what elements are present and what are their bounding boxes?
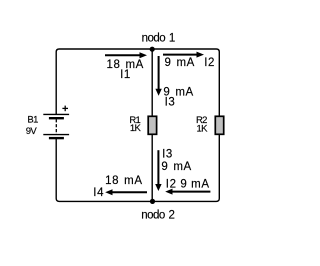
svg-text:9V: 9V [26,126,38,137]
svg-text:9 mA: 9 mA [164,57,194,69]
svg-text:9 mA: 9 mA [161,161,191,173]
svg-text:1K: 1K [130,123,142,134]
svg-text:I3: I3 [165,96,176,108]
svg-text:1K: 1K [196,123,208,134]
svg-text:I3: I3 [162,149,173,161]
svg-text:B1: B1 [27,114,38,125]
svg-text:I2 9 mA: I2 9 mA [166,178,210,190]
svg-text:I2: I2 [204,57,215,69]
svg-text:I4: I4 [93,187,104,199]
svg-text:nodo 1: nodo 1 [142,32,175,44]
svg-text:I1: I1 [120,69,131,81]
svg-text:nodo 2: nodo 2 [141,209,174,221]
svg-text:18 mA: 18 mA [105,175,142,187]
